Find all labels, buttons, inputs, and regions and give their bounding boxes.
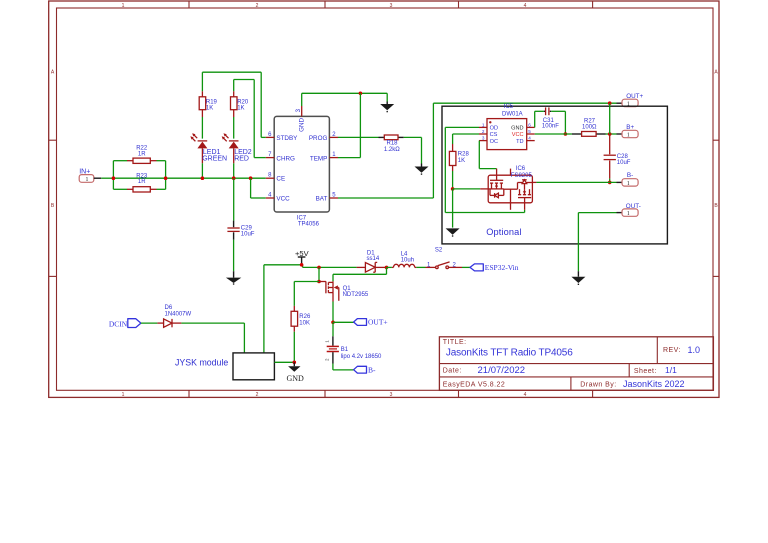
junction VCC row (564, 132, 568, 136)
svg-text:100nF: 100nF (542, 124, 559, 130)
pin 3 OC (479, 136, 498, 145)
wire R27 to B+ junction (606, 133, 617, 135)
svg-text:3: 3 (390, 3, 393, 9)
wire C28 to B- row (609, 179, 611, 183)
wire R18 to ground (404, 137, 422, 163)
wire rail to B+ row vertical (609, 103, 611, 134)
svg-text:1N4007W: 1N4007W (165, 311, 192, 317)
svg-text:CS: CS (490, 132, 498, 138)
svg-text:JYSK module: JYSK module (175, 357, 228, 367)
pin 6 GND (511, 122, 535, 131)
svg-text:2: 2 (256, 3, 259, 9)
wire FS8205 right to B- (536, 181, 616, 183)
JYSK module box (175, 353, 274, 380)
wire C31 to VCC row (551, 111, 565, 134)
svg-text:OUT+: OUT+ (368, 318, 388, 327)
pin 3 GND top (296, 106, 306, 132)
inductor L4 (392, 252, 416, 268)
pin 1 OD (479, 122, 498, 131)
frame tick top 4 (592, 1, 594, 8)
pin 6 STDBY (266, 132, 298, 142)
svg-text:Sheet:: Sheet: (634, 368, 657, 375)
svg-text:DCIN: DCIN (109, 319, 128, 328)
net flag OUT+ bottom (354, 318, 388, 327)
wire LED1 to main row (201, 163, 203, 178)
svg-text:1: 1 (627, 181, 630, 187)
junction gate row (317, 280, 321, 284)
svg-text:GREEN: GREEN (202, 156, 227, 163)
wire main row to CE (113, 177, 265, 179)
frame tick bottom 3 (458, 390, 460, 397)
ground below OUT- (571, 271, 585, 284)
wire VCC pin to R27 (535, 133, 572, 135)
svg-text:1K: 1K (206, 105, 213, 111)
resistor R27 (572, 118, 606, 136)
svg-text:1: 1 (627, 132, 630, 138)
junction OUT+ bottom (331, 321, 335, 325)
net flag DCIN (109, 319, 141, 329)
svg-text:OD: OD (490, 126, 498, 132)
frame tick bottom 2 (324, 390, 326, 397)
wire rail to gate (318, 267, 320, 281)
diode D6 1N4007W (157, 305, 191, 327)
wire +5V corner down to JYSK module (263, 265, 265, 353)
op-amp U1 : IC7 TP4056 body (274, 116, 329, 227)
resistor R28 (449, 144, 469, 171)
wire PROG to R18 (338, 136, 379, 138)
wire junction down to ground (452, 189, 454, 228)
wire GND rail drop (386, 93, 388, 101)
svg-text:GND: GND (287, 374, 305, 383)
junction GND rail (359, 92, 363, 96)
svg-text:3: 3 (390, 392, 393, 398)
svg-text:JasonKits TFT Radio TP4056: JasonKits TFT Radio TP4056 (446, 348, 573, 359)
svg-text:CE: CE (276, 176, 285, 183)
wire D1 to L4 (387, 266, 392, 268)
wire JYSK right pin (274, 361, 294, 363)
pin 1 TEMP (310, 152, 338, 162)
wire junction to FS8205 left pin (453, 188, 481, 190)
svg-text:TD: TD (516, 139, 523, 145)
ground near IC top (380, 102, 394, 112)
svg-text:3: 3 (482, 136, 485, 141)
svg-text:GND: GND (298, 117, 305, 131)
junction rail jog (317, 266, 321, 270)
svg-text:10uF: 10uF (617, 160, 631, 166)
battery B1 (325, 322, 383, 363)
frame tick top 2 (324, 1, 326, 8)
frame tick right B/C (713, 275, 719, 277)
svg-text:OC: OC (490, 139, 498, 145)
wire to OUT+ flag (333, 321, 354, 323)
wire CE node down to VCC pin (251, 178, 266, 198)
frame tick top 1 (188, 1, 190, 8)
resistor R20 (231, 91, 249, 117)
svg-text:5: 5 (528, 129, 531, 134)
svg-text:RED: RED (234, 156, 249, 163)
ground below JYSK (287, 362, 305, 383)
ground below R18 (415, 164, 429, 175)
wire CS to R28 (453, 134, 479, 144)
svg-text:Date:: Date: (443, 367, 462, 374)
pin 2 CS (479, 129, 498, 138)
frame tick left A/B (49, 139, 57, 141)
pin 5 BAT (316, 193, 338, 203)
wire R22 branch (113, 160, 165, 162)
transistor Q1 NDT2955 (319, 281, 369, 301)
wire +5V rail (264, 265, 357, 268)
wire BAT rail to OD pin (445, 127, 524, 212)
resistor R26 (291, 306, 311, 332)
wire pin3 GND up and right (302, 93, 388, 106)
svg-text:10uF: 10uF (241, 232, 255, 238)
border frame outer (49, 1, 719, 397)
svg-text:ESP32-Vin: ESP32-Vin (485, 263, 519, 272)
capacitor C31 (542, 107, 559, 129)
pin 4 TD (516, 136, 535, 145)
svg-text:GND: GND (511, 126, 523, 132)
junction B- row (608, 181, 612, 185)
wire LED2 to main row (233, 163, 235, 178)
capacitor C28 (604, 134, 631, 179)
junction R28 bottom (451, 187, 455, 191)
diode-controller IC5 DW01A body (487, 104, 527, 150)
junction +5V (300, 263, 304, 267)
svg-text:1: 1 (122, 3, 125, 9)
ground below C29 (226, 271, 241, 284)
border frame inner (57, 8, 714, 390)
svg-text:IC6: IC6 (516, 166, 526, 172)
junction LED2 (232, 176, 236, 180)
wire D6 to JYSK module (181, 323, 244, 353)
wire GND pin to C31 (535, 111, 544, 127)
svg-text:TEMP: TEMP (310, 155, 328, 162)
svg-text:R18: R18 (386, 141, 398, 147)
wire gate row to R26 (293, 282, 295, 306)
wire B1 to B- flag (333, 364, 354, 370)
svg-text:2: 2 (482, 129, 485, 134)
wire C29 to ground (233, 240, 235, 271)
junction OUT+ rail (608, 101, 612, 105)
svg-text:OUT+: OUT+ (626, 93, 643, 100)
svg-text:10uh: 10uh (401, 257, 414, 263)
svg-text:VCC: VCC (276, 196, 290, 203)
title block outline (439, 337, 713, 391)
junction node left (112, 176, 116, 180)
switch S2 (426, 262, 463, 269)
port B+ (617, 124, 639, 138)
svg-text:1: 1 (627, 211, 630, 217)
wire LED2 node down to C29 (233, 178, 235, 220)
svg-text:1: 1 (122, 392, 125, 398)
svg-text:1R: 1R (138, 179, 146, 185)
wire R19 to LED1 (201, 117, 203, 139)
junction LED1 (201, 176, 205, 180)
wire source loop D1 to Q1 (333, 267, 387, 281)
svg-text:100Ω: 100Ω (582, 124, 597, 130)
resistor R18 (379, 135, 404, 153)
svg-text:TP4056: TP4056 (298, 221, 320, 227)
Optional box (442, 106, 667, 244)
svg-text:1R: 1R (138, 151, 146, 157)
resistor R23 (127, 173, 157, 192)
ground in optional box (446, 228, 460, 236)
diode D1 ss14 (357, 250, 387, 272)
net flag B- bottom (354, 365, 376, 374)
wire R20 top loop to pin7 (234, 80, 266, 158)
svg-text:1.2kΩ: 1.2kΩ (384, 147, 400, 153)
svg-text:NDT2955: NDT2955 (343, 292, 369, 298)
junction D1 cathode (385, 266, 389, 270)
junction B+ row (608, 132, 612, 136)
svg-text:S2: S2 (435, 247, 443, 253)
svg-text:6: 6 (528, 122, 531, 127)
svg-text:OUT-: OUT- (626, 203, 641, 210)
wire BAT to OUT+ rail (338, 103, 617, 198)
pin 8 CE (266, 173, 285, 183)
svg-text:B1: B1 (341, 347, 349, 353)
port OUT+ right (617, 93, 644, 108)
svg-text:B-: B- (368, 365, 376, 374)
svg-text:1: 1 (86, 177, 89, 183)
svg-text:DW01A: DW01A (502, 112, 523, 118)
wire Q1 drain down (332, 302, 334, 323)
power flag +5V (295, 249, 309, 265)
wire L4 to S2 (416, 266, 425, 268)
svg-text:2: 2 (256, 392, 259, 398)
frame tick bottom 1 (188, 390, 190, 397)
wire R23 branch (113, 188, 165, 190)
port IN+ (79, 169, 101, 183)
svg-text:lipo 4.2v 18650: lipo 4.2v 18650 (341, 354, 382, 360)
svg-text:4: 4 (524, 3, 527, 9)
frame tick top 3 (458, 1, 460, 8)
svg-text:21/07/2022: 21/07/2022 (478, 365, 526, 376)
wire IN+ to node (101, 177, 113, 179)
wire R28 to FET source junction (452, 171, 454, 189)
wire DCIN to D6 (141, 322, 158, 324)
junction node right (164, 176, 168, 180)
junction CE node (249, 176, 253, 180)
resistor R19 (199, 91, 217, 117)
pin 7 CHRG (266, 152, 295, 162)
svg-text:IN+: IN+ (79, 169, 90, 176)
resistor R22 (127, 145, 157, 163)
wire R19 top loop to pin6 (202, 72, 265, 137)
frame tick bottom 4 (592, 390, 594, 397)
wire OUT- (578, 213, 616, 272)
pin 4 VCC (266, 193, 290, 203)
wire R26 to GND row (293, 332, 295, 363)
svg-text:BAT: BAT (316, 196, 328, 203)
svg-text:VCC: VCC (512, 132, 524, 138)
svg-text:B-: B- (627, 172, 633, 179)
port B- (617, 172, 639, 187)
svg-text:TITLE:: TITLE: (443, 339, 467, 346)
svg-text:4: 4 (528, 136, 531, 141)
svg-text:ss14: ss14 (367, 256, 380, 262)
port OUT- (617, 203, 641, 217)
wire parallel right vertical (165, 161, 167, 190)
svg-text:CHRG: CHRG (276, 155, 295, 162)
svg-text:1: 1 (482, 122, 485, 127)
frame tick right A/B (713, 139, 719, 141)
svg-text:STDBY: STDBY (276, 135, 298, 142)
svg-text:1K: 1K (458, 158, 465, 164)
wire TEMP to GND rail vertical (338, 93, 360, 157)
transistor pair IC6 FS8205 (488, 166, 532, 210)
LED LED2 (222, 133, 252, 163)
wire parallel left vertical (112, 161, 114, 190)
wire gate row (294, 281, 319, 283)
wire S2 to ESP32-Vin (462, 266, 470, 268)
svg-text:R26: R26 (299, 314, 311, 320)
frame tick left B/C (49, 275, 57, 277)
net flag ESP32-Vin (470, 263, 519, 272)
LED LED1 (190, 133, 227, 163)
svg-text:4: 4 (524, 392, 527, 398)
pin 5 VCC (512, 129, 535, 138)
svg-text:Optional: Optional (486, 227, 521, 237)
wire OC to gate1 (479, 141, 496, 169)
svg-text:FS8205: FS8205 (511, 173, 533, 179)
svg-text:D6: D6 (165, 305, 173, 311)
svg-text:IC5: IC5 (504, 104, 514, 110)
svg-text:R28: R28 (458, 151, 470, 157)
capacitor C29 (227, 221, 254, 240)
pin FS8205 left (480, 188, 488, 190)
svg-text:1K: 1K (237, 105, 244, 111)
svg-text:1/1: 1/1 (665, 365, 677, 375)
pin FS8205 right (532, 181, 536, 183)
svg-text:1.0: 1.0 (688, 345, 701, 355)
svg-text:EasyEDA V5.8.22: EasyEDA V5.8.22 (443, 381, 505, 388)
svg-text:REV:: REV: (663, 347, 681, 354)
junction GND row (293, 361, 297, 365)
pin 2 PROG (309, 132, 338, 142)
svg-text:C28: C28 (617, 154, 629, 160)
wire R20 to LED2 (233, 117, 235, 139)
svg-text:JasonKits 2022: JasonKits 2022 (623, 379, 685, 389)
svg-text:B+: B+ (626, 124, 634, 131)
svg-text:Drawn By:: Drawn By: (580, 382, 616, 389)
svg-text:PROG: PROG (309, 135, 328, 142)
svg-text:10K: 10K (299, 320, 310, 326)
